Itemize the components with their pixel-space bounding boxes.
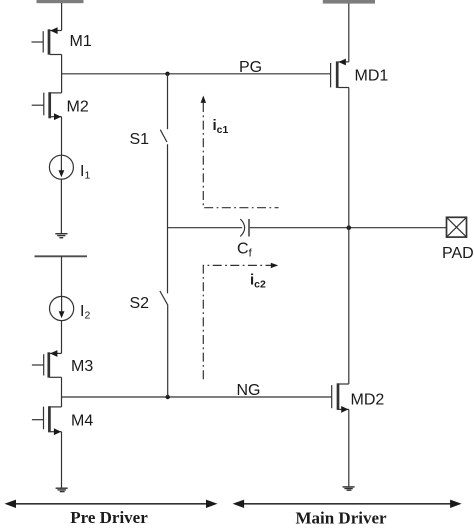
current path ic2 (dash-dot) — [203, 265, 271, 379]
wire I2 to M3 — [61, 321, 63, 354]
transistor MD1 — [331, 59, 349, 88]
node PG junction dot — [165, 72, 169, 76]
svg-text:Main Driver: Main Driver — [295, 509, 387, 528]
svg-text:MD1: MD1 — [355, 68, 389, 85]
wire M2 to I1 — [61, 117, 63, 156]
arrowhead ic2 — [271, 263, 278, 268]
wire M1 drain to M2 source — [61, 55, 63, 93]
node output junction dot — [347, 225, 352, 230]
arrowhead ic1 — [201, 96, 206, 103]
VSS supply bar (middle) — [35, 255, 88, 257]
wire S1 to Cf tee to S2 — [167, 144, 169, 293]
transistor M4 — [32, 406, 62, 435]
current source I2 — [50, 296, 74, 320]
svg-text:M3: M3 — [71, 358, 93, 375]
svg-text:M4: M4 — [71, 413, 93, 430]
wire VDD to MD1 source — [348, 3, 350, 62]
svg-text:S2: S2 — [130, 295, 150, 312]
transistor M2 — [32, 92, 62, 120]
wire S2 to NG — [167, 305, 169, 397]
svg-text:ic2: ic2 — [250, 272, 266, 291]
svg-text:Pre Driver: Pre Driver — [70, 508, 148, 527]
wire VSS bar to I2 — [61, 256, 63, 296]
current source I1 — [49, 155, 73, 179]
wire I1 to ground — [60, 179, 62, 233]
svg-text:NG: NG — [237, 382, 261, 399]
transistor MD2 — [332, 383, 349, 413]
wire NG net — [62, 396, 332, 398]
ground (bottom-right) — [343, 487, 355, 490]
capacitor Cf — [240, 219, 249, 237]
Pre Driver span arrow — [14, 503, 208, 505]
wire MD2 source to ground — [348, 409, 350, 486]
PAD symbol — [447, 217, 467, 237]
wire MD1 drain to MD2 drain (output column) — [348, 88, 350, 385]
transistor M3 — [32, 350, 62, 378]
wire Cf right segment to PAD — [250, 227, 447, 229]
VDD rail bar top-right — [323, 0, 375, 4]
svg-text:PAD: PAD — [442, 245, 474, 262]
switch S1 blade — [160, 130, 167, 142]
wire VDD to M1 source — [61, 3, 63, 31]
wire M4 drain to ground — [61, 432, 63, 488]
wire M3 drain to M4 (NG node) — [61, 377, 63, 407]
wire Cf left segment — [168, 227, 243, 229]
wire PG down to switch S1 — [167, 74, 169, 129]
svg-text:I1: I1 — [80, 163, 90, 182]
ground (bottom-left) — [56, 488, 68, 491]
svg-text:Cf: Cf — [237, 241, 253, 260]
VDD rail bar top-left — [37, 0, 84, 3]
current path ic1 (dash-dot) — [203, 103, 278, 208]
svg-text:PG: PG — [239, 59, 262, 76]
svg-text:MD2: MD2 — [351, 392, 385, 409]
svg-text:ic1: ic1 — [213, 117, 229, 136]
svg-text:S1: S1 — [130, 131, 150, 148]
ground (left, upper) — [55, 234, 67, 238]
wire PG net — [62, 73, 331, 75]
Main Driver span arrow — [242, 503, 452, 505]
svg-text:M2: M2 — [67, 99, 89, 116]
transistor M1 — [32, 27, 62, 55]
node NG junction dot — [166, 395, 170, 399]
svg-text:I2: I2 — [80, 303, 90, 322]
switch S2 blade — [160, 291, 168, 305]
svg-text:M1: M1 — [70, 33, 92, 50]
